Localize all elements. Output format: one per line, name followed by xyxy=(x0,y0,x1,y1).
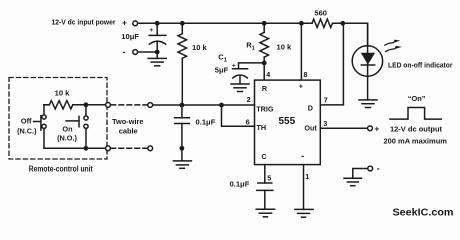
wire output minus xyxy=(353,169,368,179)
resistor R1 vertical xyxy=(260,23,269,63)
svg-text:“On”: “On” xyxy=(408,94,426,103)
svg-text:200 mA maximum: 200 mA maximum xyxy=(383,136,447,145)
ground G3 common xyxy=(173,148,191,168)
svg-text:(N.O.): (N.O.) xyxy=(57,133,77,142)
wire pin8 xyxy=(300,23,302,80)
svg-text:10 k: 10 k xyxy=(192,43,208,52)
svg-text:4: 4 xyxy=(266,70,270,79)
capacitor 0.1uF pin5 xyxy=(257,183,273,209)
IC 555 box xyxy=(255,80,321,165)
svg-text:10 k: 10 k xyxy=(55,89,71,98)
svg-text:TRIG: TRIG xyxy=(256,105,274,114)
svg-text:Remote-control unit: Remote-control unit xyxy=(29,164,93,173)
junction R1-C1-pin4 xyxy=(262,61,267,66)
svg-text:5μF: 5μF xyxy=(215,66,229,75)
svg-text:R: R xyxy=(262,84,268,93)
terminal - output xyxy=(368,166,373,171)
junction trig-th xyxy=(219,103,224,108)
junction remote-bottom xyxy=(84,146,89,151)
wire cable dashed lower xyxy=(111,147,148,149)
capacitor 10uF xyxy=(149,23,166,52)
svg-text:7: 7 xyxy=(324,95,328,104)
terminal + output xyxy=(368,126,373,131)
svg-text:10μF: 10μF xyxy=(121,32,139,41)
wire cable dashed upper xyxy=(111,104,148,106)
svg-text:10 k: 10 k xyxy=(277,43,293,52)
svg-text:6: 6 xyxy=(246,117,250,126)
svg-text:12-V dc input power: 12-V dc input power xyxy=(52,17,116,26)
capacitor 0.1uF trig xyxy=(175,105,190,148)
capacitor C1 5uF xyxy=(233,69,248,84)
junction rail-R1 xyxy=(262,21,267,26)
LED on-off indicator xyxy=(352,46,382,76)
svg-text:+: + xyxy=(299,82,303,91)
ground G2 C1 xyxy=(231,84,249,92)
resistor 10k remote xyxy=(44,101,106,109)
terminal cable lower xyxy=(148,146,153,151)
junction rail-pin7 xyxy=(340,21,345,26)
svg-text:D: D xyxy=(308,103,313,112)
svg-text:-: - xyxy=(377,163,380,173)
svg-text:3: 3 xyxy=(323,119,327,128)
svg-text:-: - xyxy=(301,151,304,161)
remote control unit dashed box xyxy=(9,78,107,160)
svg-text:+: + xyxy=(232,62,236,69)
resistor 10k vertical xyxy=(178,23,187,105)
svg-text:C: C xyxy=(261,152,266,161)
ground G7 output xyxy=(344,178,362,186)
wire remote bottom xyxy=(44,147,106,149)
svg-text:560: 560 xyxy=(314,9,327,18)
wire pin6 TH branch xyxy=(222,105,255,126)
wire pin5 xyxy=(264,165,266,183)
switch Off NC xyxy=(34,105,50,149)
ground G4 pin5 xyxy=(256,209,275,217)
svg-text:0.1μF: 0.1μF xyxy=(230,180,250,189)
ground G1 input xyxy=(148,52,166,66)
wire pin1 xyxy=(303,165,305,210)
switch On NO xyxy=(66,105,88,149)
ground G5 pin1 xyxy=(295,209,313,217)
svg-text:12-V dc output: 12-V dc output xyxy=(390,124,443,133)
LED arrows xyxy=(385,40,401,52)
svg-text:Two-wire: Two-wire xyxy=(112,117,143,126)
svg-text:cable: cable xyxy=(119,127,138,136)
wire top supply rail right xyxy=(333,23,368,46)
junction rail-10k xyxy=(180,21,185,26)
svg-text:(N.C.): (N.C.) xyxy=(17,127,37,136)
terminal + input xyxy=(133,21,138,26)
ground G6 LED xyxy=(359,100,377,108)
svg-text:LED on-off indicator: LED on-off indicator xyxy=(388,60,453,69)
junction rail-pin8 xyxy=(299,21,304,26)
svg-text:555: 555 xyxy=(278,116,295,127)
terminal cable upper xyxy=(148,103,153,108)
wire pin3 Out xyxy=(320,127,367,129)
terminal remote lower xyxy=(106,146,111,151)
junction trig-0.1uF xyxy=(180,103,185,108)
svg-text:On: On xyxy=(62,124,72,133)
svg-text:TH: TH xyxy=(257,123,267,132)
junction rail-10uF xyxy=(155,21,160,26)
junction remote-top xyxy=(84,102,89,107)
wire pin2 TRIG xyxy=(153,104,255,106)
svg-text:SeekIC.com: SeekIC.com xyxy=(393,207,454,219)
wire pin7 xyxy=(320,23,343,105)
svg-text:0.1μF: 0.1μF xyxy=(196,117,216,126)
svg-text:+: + xyxy=(149,27,153,34)
resistor 560 xyxy=(312,19,332,27)
wire minus input xyxy=(138,51,158,53)
svg-text:+: + xyxy=(122,18,127,28)
wire pin4 xyxy=(263,63,265,80)
svg-text:1: 1 xyxy=(305,172,309,181)
svg-text:Off: Off xyxy=(21,116,32,125)
terminal remote upper xyxy=(106,103,111,108)
junction minus-10uF xyxy=(155,50,160,55)
svg-text:+: + xyxy=(374,123,379,133)
terminal - input xyxy=(133,50,138,55)
LED wire xyxy=(367,23,369,100)
wire C1 branch xyxy=(239,63,265,69)
svg-text:-: - xyxy=(123,47,126,57)
junction common-ground xyxy=(180,146,185,151)
svg-text:8: 8 xyxy=(304,70,308,79)
wire top supply rail left xyxy=(138,22,312,24)
output waveform xyxy=(390,108,441,120)
svg-text:2: 2 xyxy=(247,95,251,104)
svg-text:5: 5 xyxy=(267,173,271,182)
svg-text:Out: Out xyxy=(304,123,317,132)
